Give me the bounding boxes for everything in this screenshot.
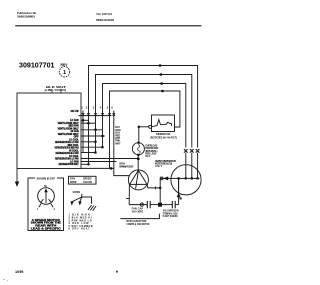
connector tick on fan left wire xyxy=(126,198,129,200)
wire color list right of matrix xyxy=(115,126,121,145)
svg-text:4 RED LOW: 4 RED LOW xyxy=(69,222,90,225)
thermostat label xyxy=(150,132,177,139)
loop3 wire into compressor xyxy=(185,153,187,179)
wire loop 1 xyxy=(89,66,198,148)
svg-text:THERMOSTAT: THERMOSTAT xyxy=(156,132,171,136)
rail terminal circle xyxy=(140,203,143,206)
winding bar dots xyxy=(178,177,180,179)
fan right winding wire to common xyxy=(147,185,160,188)
svg-text:LEAD & SPECIFIC: LEAD & SPECIFIC xyxy=(31,227,61,230)
svg-text:REFRIGERATION ONLY: REFRIGERATION ONLY xyxy=(59,163,79,166)
compressor S wire inside circle xyxy=(178,178,180,192)
bus vertical 2 lower segment xyxy=(88,120,90,164)
compressor feed terminal circle xyxy=(160,177,163,180)
wire loop 4 to thermostat xyxy=(110,91,180,168)
thermostat left terminal circle xyxy=(149,125,152,128)
wire color legend header box xyxy=(69,176,97,184)
thermostat switch symbol xyxy=(152,120,172,127)
svg-text:(ROTATED 90° IN PICT): (ROTATED 90° IN PICT) xyxy=(150,137,177,140)
svg-text:6 GRY HEAT: 6 GRY HEAT xyxy=(69,228,91,231)
terminal row line xyxy=(79,115,112,117)
wire thermostat down to overload xyxy=(138,127,140,143)
part number 309107701 xyxy=(19,62,55,69)
wire common junction up to compressor C xyxy=(159,178,161,204)
terminal x marks on bus tops xyxy=(82,113,115,116)
fan capacitor label xyxy=(132,208,144,214)
fan left winding wire down xyxy=(128,185,130,205)
svg-text:1: 1 xyxy=(63,70,66,76)
junction dot bottom wire xyxy=(110,167,112,169)
dot right of S wire xyxy=(180,197,182,199)
svg-text:WIRE: WIRE xyxy=(70,181,77,184)
svg-text:309107701: 309107701 xyxy=(19,62,55,69)
svg-text:BRN/WHT LEAD: BRN/WHT LEAD xyxy=(119,166,133,169)
scan speckles xyxy=(3,279,5,280)
switch rung row3 xyxy=(81,129,103,131)
footer page mark xyxy=(116,271,118,273)
switch rung row5 xyxy=(81,141,96,143)
junction dot fan common xyxy=(159,187,161,189)
fan motor circle xyxy=(128,170,148,190)
svg-text:(LINE CORD): (LINE CORD) xyxy=(45,88,67,92)
legend box heading xyxy=(35,177,57,181)
connector fork symbol xyxy=(81,194,83,197)
fan lead label xyxy=(119,163,133,169)
junction dot loop4 xyxy=(161,90,163,92)
junction dot thermostat corner xyxy=(138,126,140,128)
line cord stubs xyxy=(51,91,53,93)
wire loop 2 xyxy=(96,75,192,153)
svg-text:UNIT: UNIT xyxy=(155,165,163,168)
terminal numbers xyxy=(81,106,113,110)
selector switch box xyxy=(17,93,81,169)
connector tick on fan common wire xyxy=(155,186,157,189)
svg-text:5 WHT COMMON: 5 WHT COMMON xyxy=(69,226,93,228)
up arrow on S wire xyxy=(177,193,181,197)
legend motor terminals xyxy=(39,204,41,208)
junction dot loop1 xyxy=(159,64,161,66)
compressor winding bar xyxy=(160,177,199,179)
svg-text:3 PNK MED LO: 3 PNK MED LO xyxy=(69,220,92,222)
overload text block xyxy=(145,144,158,158)
svg-text:WIRING DIAGRAM: WIRING DIAGRAM xyxy=(96,18,114,22)
compressor run capacitor plates xyxy=(171,201,173,208)
revision symbol circle 1 xyxy=(59,63,69,77)
selector labels right aligned xyxy=(55,110,80,166)
wire capacitor up to compressor S xyxy=(178,178,180,204)
line cord labels BLK WHT xyxy=(45,85,67,92)
junction dot fan feed xyxy=(137,158,139,160)
switch rung row2 xyxy=(81,122,96,124)
svg-text:CONN: CONN xyxy=(73,191,81,194)
svg-text:IS NOT SHOWN: IS NOT SHOWN xyxy=(163,215,178,218)
loop1 wire into compressor xyxy=(197,153,199,179)
legend text block xyxy=(31,219,61,231)
switch bus vertical 6 xyxy=(113,111,115,169)
junction dot loop2 xyxy=(160,73,162,75)
switch rung row8 fan feed xyxy=(81,158,138,160)
compressor motor circle xyxy=(171,165,201,195)
switch rung row9 xyxy=(81,161,116,163)
svg-text:SHOWN IN OFF: SHOWN IN OFF xyxy=(37,177,56,180)
fan motor windings xyxy=(130,170,147,189)
svg-text:COMPR & FAN MOTOR: COMPR & FAN MOTOR xyxy=(126,223,149,226)
junction dot loop3 xyxy=(161,82,163,84)
header rule xyxy=(15,25,201,27)
run capacitor bracket xyxy=(120,214,159,219)
motor legend box xyxy=(28,178,64,231)
legend arrow inside motor xyxy=(45,191,47,203)
bottom wire from box to fan xyxy=(81,168,130,175)
svg-text:COLOR: COLOR xyxy=(83,181,92,184)
hatch marks xyxy=(88,205,96,211)
fan run capacitor plates xyxy=(146,201,148,208)
switch rung row4 xyxy=(81,135,105,137)
switch rung row10 xyxy=(81,163,89,165)
thermostat box xyxy=(152,115,175,132)
switch rung row7 xyxy=(81,152,96,154)
svg-text:OFF CW: OFF CW xyxy=(71,110,80,113)
quick connect marks xyxy=(184,149,199,153)
wire thermostat to OLP drop xyxy=(139,126,149,128)
wire loop 3 xyxy=(103,84,186,148)
left arrowhead on compressor feed xyxy=(163,176,168,180)
loop2 wire into compressor xyxy=(191,153,193,179)
svg-text:2 BLU MED HI: 2 BLU MED HI xyxy=(69,218,92,220)
power cord wire with arrow xyxy=(16,169,18,183)
svg-text:1 BLK HIGH: 1 BLK HIGH xyxy=(69,215,90,217)
note text right of capacitor xyxy=(163,210,179,219)
bottom rail xyxy=(129,204,147,206)
svg-text:BLK: BLK xyxy=(145,155,150,158)
wire color list xyxy=(69,215,93,231)
legend motor circle xyxy=(38,188,55,205)
svg-text:1099: 1099 xyxy=(15,270,24,274)
switch rung row6 xyxy=(81,146,103,148)
compressor label xyxy=(155,160,176,168)
header model text xyxy=(96,12,114,22)
svg-text:FAL 103Y1A4: FAL 103Y1A4 xyxy=(97,12,113,16)
svg-text:5995208805: 5995208805 xyxy=(17,15,35,19)
header publication text xyxy=(17,11,37,19)
overload protector circle xyxy=(132,143,144,155)
switch rung row1 xyxy=(81,119,89,121)
switch bus vertical 1 xyxy=(82,111,84,153)
capacitor common junction xyxy=(158,203,162,207)
wire overload to fan motor xyxy=(137,156,139,170)
svg-text:35/5 MFD: 35/5 MFD xyxy=(132,210,144,213)
svg-text:WHT: WHT xyxy=(115,142,121,145)
run capacitor label xyxy=(126,220,149,226)
